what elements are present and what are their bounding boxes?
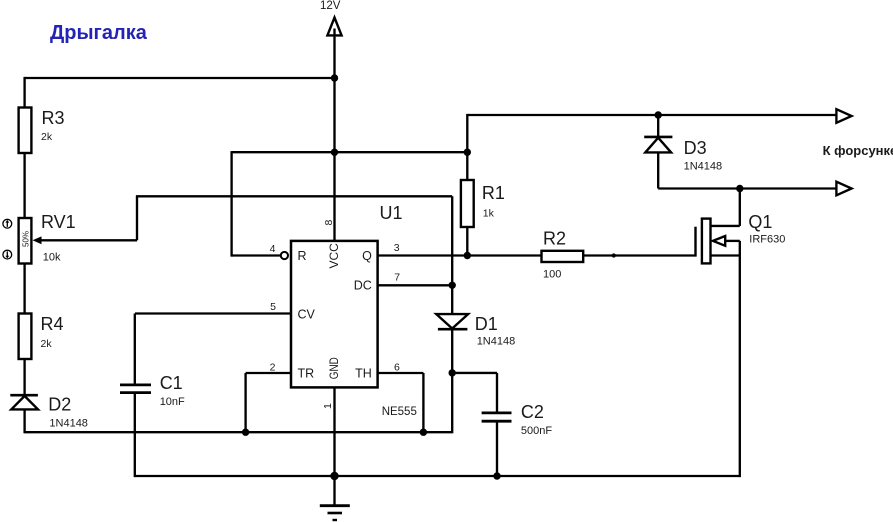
svg-text:D3: D3 [684, 138, 707, 158]
junction dot Q1 drain [736, 185, 743, 192]
svg-text:R: R [298, 249, 307, 263]
wire R2 to gate [583, 254, 695, 256]
svg-text:1N4148: 1N4148 [684, 161, 723, 173]
gate bar [694, 227, 696, 257]
wire R3 to RV1 [23, 153, 25, 218]
node dot gate line [612, 253, 616, 257]
wire TR pin 2 [246, 372, 291, 374]
svg-text:D2: D2 [48, 395, 71, 415]
svg-text:C1: C1 [160, 373, 183, 393]
svg-text:6: 6 [394, 362, 400, 374]
junction dot 12V rail152 [331, 149, 338, 156]
wire Q pin 3 to R2 [378, 254, 542, 256]
wire mid bottom line [25, 431, 453, 433]
resistor R3 [19, 108, 32, 154]
output terminal arrow 1 [836, 109, 851, 123]
RV1 decrement button [3, 250, 12, 259]
output terminal arrow 2 [836, 182, 851, 196]
wire ground rail [135, 475, 740, 477]
junction dot D1 C2 [449, 369, 456, 376]
wire reset column [230, 151, 232, 257]
svg-text:500nF: 500nF [521, 425, 552, 437]
resistor R1 [466, 152, 468, 180]
svg-text:GND: GND [327, 357, 341, 379]
op IC U1 NE555 box [291, 241, 378, 388]
svg-text:VCC: VCC [327, 243, 341, 269]
wire C2 branch [452, 372, 497, 374]
pin 4 bubble [281, 252, 288, 259]
svg-text:RV1: RV1 [41, 212, 76, 232]
wire wiper to control column [136, 195, 452, 197]
diode D3 [657, 115, 659, 137]
wire DC pin 7 [378, 284, 453, 286]
svg-text:1N4148: 1N4148 [49, 418, 88, 430]
svg-text:10k: 10k [43, 252, 61, 264]
svg-text:2k: 2k [41, 131, 53, 143]
wire CV pin 5 [135, 312, 291, 314]
wire control column upper [451, 196, 453, 314]
wire C2 bottom lead [496, 421, 498, 476]
resistor R4 [19, 314, 32, 360]
svg-text:C2: C2 [521, 402, 544, 422]
svg-text:Q1: Q1 [748, 212, 772, 232]
wire C2 top lead [496, 373, 498, 413]
svg-text:CV: CV [298, 308, 316, 322]
svg-text:100: 100 [543, 269, 561, 281]
wire C1 to ground rail [134, 393, 136, 478]
wire D1 cathode down [451, 329, 453, 433]
svg-text:50%: 50% [22, 231, 31, 247]
svg-text:1: 1 [322, 403, 334, 409]
svg-text:R3: R3 [42, 108, 65, 128]
drain stub [711, 225, 740, 227]
wire reset pin lead [232, 254, 281, 256]
junction dot D3 top [655, 111, 662, 118]
svg-text:4: 4 [270, 243, 276, 255]
junction dot DC D1 [449, 282, 456, 289]
wire RV1 to R4 [23, 264, 25, 314]
wire D3 anode down [657, 152, 659, 188]
svg-text:D1: D1 [475, 314, 498, 334]
RV1 increment button [3, 219, 12, 228]
wire TR drop [244, 373, 246, 432]
wire rail 152 [232, 151, 468, 153]
svg-text:Q: Q [362, 249, 372, 263]
diode D1 [436, 314, 468, 328]
RV1 wiper arrow [33, 236, 42, 244]
junction dot TH bottom [420, 429, 427, 436]
junction dot C2 ground [493, 472, 500, 479]
svg-text:IRF630: IRF630 [749, 234, 785, 246]
svg-text:2k: 2k [41, 338, 53, 350]
wire upper right rail [467, 114, 836, 116]
svg-text:7: 7 [394, 272, 400, 284]
wire D3 to output 2 [658, 187, 836, 189]
junction dot ground rail [330, 472, 338, 480]
wire wiper riser [136, 196, 138, 240]
channel bar [702, 219, 711, 264]
wire R4 to D2 [23, 359, 25, 395]
ground symbol [320, 476, 350, 520]
svg-text:12V: 12V [320, 0, 341, 12]
wire D2 to bottom line [23, 409, 25, 433]
capacitor C2 [482, 411, 512, 414]
wire GND pin 1 [333, 387, 335, 476]
source stub [711, 254, 740, 256]
wire left column top [23, 77, 25, 108]
svg-text:К форсунке: К форсунке [823, 143, 893, 158]
svg-text:TH: TH [355, 366, 372, 380]
transistor Q1 IRF630 [696, 189, 786, 478]
svg-text:NE555: NE555 [382, 406, 417, 418]
wire TH pin 6 [378, 372, 424, 374]
junction dot rail152 R1 [464, 149, 471, 156]
svg-text:5: 5 [270, 301, 276, 313]
junction dot TR bottom [242, 429, 249, 436]
resistor R2 [542, 251, 584, 262]
svg-text:U1: U1 [380, 203, 403, 223]
source lead [739, 241, 741, 477]
wire top-left rail [25, 77, 335, 79]
wire TH drop [422, 373, 424, 432]
svg-text:R1: R1 [482, 183, 505, 203]
body arrow [713, 236, 725, 246]
power terminal 12V arrow [327, 18, 341, 36]
svg-text:R4: R4 [41, 314, 64, 334]
junction dot R1 bottom [464, 252, 471, 259]
junction dot 12V top rail [331, 74, 338, 81]
potentiometer RV1 [19, 218, 32, 264]
capacitor C1 [120, 383, 151, 386]
svg-text:1k: 1k [483, 208, 495, 220]
wire rail drop to R1 [466, 114, 468, 152]
svg-text:TR: TR [298, 366, 315, 380]
wire RV1 wiper horizontal [40, 239, 137, 241]
svg-text:DC: DC [354, 278, 372, 292]
diode D2 [10, 394, 38, 397]
svg-text:8: 8 [323, 220, 335, 226]
svg-text:2: 2 [270, 361, 276, 373]
svg-text:3: 3 [394, 242, 400, 254]
svg-text:1N4148: 1N4148 [477, 336, 516, 348]
svg-text:Дрыгалка: Дрыгалка [50, 22, 148, 44]
wire CV to C1 [134, 314, 136, 385]
wire 12V stem [333, 29, 335, 241]
svg-text:10nF: 10nF [160, 396, 185, 408]
svg-text:R2: R2 [543, 229, 566, 249]
drain lead [739, 189, 741, 226]
